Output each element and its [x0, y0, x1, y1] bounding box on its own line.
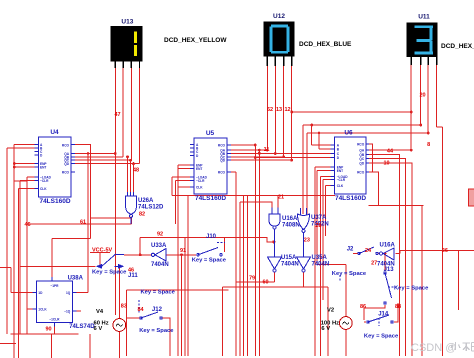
svg-text:74LS74D: 74LS74D: [69, 324, 95, 330]
svg-text:74LS160D: 74LS160D: [39, 198, 70, 205]
svg-text:U5: U5: [206, 130, 215, 137]
svg-text:RCO: RCO: [62, 143, 70, 147]
svg-text:~CLR: ~CLR: [196, 179, 205, 183]
svg-text:1CLK: 1CLK: [38, 308, 47, 312]
svg-text:82: 82: [139, 212, 145, 218]
svg-text:U16A: U16A: [282, 216, 298, 222]
svg-text:U33A: U33A: [151, 243, 167, 249]
svg-text:U4: U4: [50, 129, 59, 136]
svg-text:1Q: 1Q: [66, 291, 71, 295]
svg-text:24: 24: [365, 248, 372, 254]
svg-text:27: 27: [371, 261, 377, 267]
svg-text:92: 92: [157, 231, 163, 237]
svg-text:84: 84: [138, 307, 145, 313]
svg-text:47: 47: [115, 112, 121, 118]
svg-text:U15A: U15A: [281, 255, 297, 261]
svg-text:12: 12: [285, 107, 291, 113]
svg-text:~1PR: ~1PR: [50, 284, 59, 288]
svg-text:88: 88: [395, 304, 401, 310]
svg-text:~1Q: ~1Q: [64, 310, 71, 314]
svg-text:79: 79: [249, 275, 255, 281]
svg-text:J13: J13: [384, 267, 395, 273]
svg-text:CLK: CLK: [40, 187, 47, 191]
svg-text:V4: V4: [96, 309, 104, 315]
svg-text:RCO: RCO: [218, 170, 226, 174]
svg-text:46: 46: [25, 222, 31, 228]
svg-text:7408N: 7408N: [282, 223, 300, 229]
svg-text:74LS160D: 74LS160D: [195, 195, 226, 202]
svg-text:VCC-5V: VCC-5V: [92, 248, 113, 254]
svg-text:U16A: U16A: [380, 243, 396, 249]
svg-text:CLK: CLK: [337, 184, 344, 188]
svg-text:Key = Space: Key = Space: [394, 286, 429, 292]
svg-text:86: 86: [360, 304, 366, 310]
svg-text:RCO: RCO: [357, 143, 365, 147]
svg-text:DCD_HEX_: DCD_HEX_: [441, 43, 474, 50]
svg-text:~1CLR: ~1CLR: [49, 318, 60, 322]
svg-text:DCD_HEX_BLUE: DCD_HEX_BLUE: [299, 41, 352, 48]
svg-text:23: 23: [304, 238, 310, 244]
svg-text:74LS160D: 74LS160D: [335, 195, 366, 202]
svg-text:20: 20: [420, 93, 426, 99]
svg-text:74LS12D: 74LS12D: [138, 205, 164, 211]
svg-text:ENT: ENT: [196, 167, 202, 171]
svg-text:J2: J2: [347, 247, 354, 253]
svg-text:26: 26: [442, 248, 448, 254]
svg-text:62: 62: [267, 107, 273, 113]
svg-text:J12: J12: [152, 307, 163, 313]
svg-text:RCO: RCO: [357, 170, 365, 174]
svg-text:QA: QA: [359, 149, 364, 153]
svg-text:90: 90: [46, 327, 52, 333]
svg-text:10: 10: [384, 161, 390, 167]
svg-text:QD: QD: [359, 161, 364, 165]
svg-text:Key = Space: Key = Space: [192, 258, 227, 264]
svg-text:CSDN @: CSDN @: [411, 342, 456, 354]
svg-text:CLK: CLK: [196, 186, 203, 190]
svg-text:Key = Space: Key = Space: [139, 328, 174, 334]
svg-text:83: 83: [121, 304, 127, 310]
svg-text:QD: QD: [220, 159, 225, 163]
svg-text:QD: QD: [64, 162, 69, 166]
svg-text:1D: 1D: [38, 291, 43, 295]
svg-text:~CLR: ~CLR: [337, 178, 346, 182]
svg-text:U12: U12: [273, 13, 285, 20]
svg-text:ENT: ENT: [40, 166, 46, 170]
svg-text:Key = Space: Key = Space: [141, 290, 176, 296]
svg-text:48: 48: [133, 168, 139, 174]
svg-text:V2: V2: [327, 308, 334, 314]
svg-text:Key = Space: Key = Space: [364, 334, 399, 340]
svg-text:61: 61: [80, 220, 86, 226]
svg-text:U11: U11: [418, 13, 430, 20]
svg-text:U38A: U38A: [68, 276, 84, 282]
svg-text:U37A: U37A: [311, 215, 327, 221]
svg-text:Key = Space: Key = Space: [332, 271, 367, 277]
svg-text:Key = Space: Key = Space: [92, 270, 127, 276]
svg-text:7404N: 7404N: [281, 262, 299, 268]
svg-text:7404N: 7404N: [312, 262, 330, 268]
svg-text:J10: J10: [206, 234, 217, 240]
svg-text:U13: U13: [121, 19, 133, 26]
svg-text:J14: J14: [378, 312, 389, 318]
svg-text:6 V: 6 V: [94, 326, 103, 332]
svg-text:U6: U6: [344, 130, 353, 137]
svg-text:RCO: RCO: [218, 144, 226, 148]
svg-text:21: 21: [278, 195, 284, 201]
svg-text:7404N: 7404N: [151, 262, 169, 268]
svg-text:QC: QC: [359, 157, 364, 161]
svg-text:28: 28: [316, 223, 322, 229]
svg-text:91: 91: [180, 248, 186, 254]
svg-text:J11: J11: [128, 273, 138, 279]
svg-text:11: 11: [264, 147, 270, 153]
svg-text:U26A: U26A: [138, 198, 154, 204]
svg-text:44: 44: [387, 149, 394, 155]
svg-text:60: 60: [263, 280, 269, 286]
svg-text:13: 13: [276, 107, 282, 113]
svg-text:6 V: 6 V: [321, 326, 330, 332]
svg-text:ENT: ENT: [337, 169, 343, 173]
svg-text:RCO: RCO: [62, 170, 70, 174]
svg-text:DCD_HEX_YELLOW: DCD_HEX_YELLOW: [164, 37, 227, 44]
svg-text:U35A: U35A: [312, 255, 328, 261]
svg-text:~CLR: ~CLR: [40, 179, 49, 183]
svg-text:8: 8: [427, 142, 430, 148]
